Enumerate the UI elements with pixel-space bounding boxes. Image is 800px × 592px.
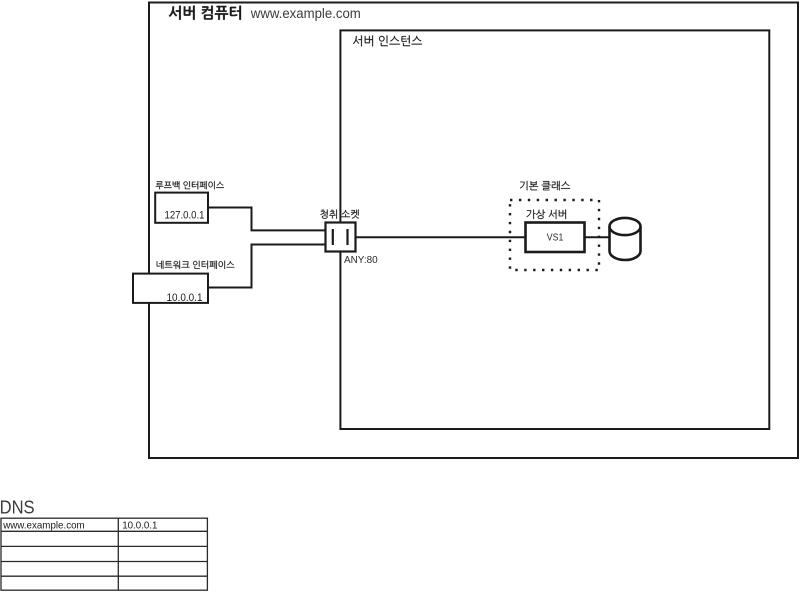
svg-text:VS1: VS1 xyxy=(547,233,564,244)
box: listening socket xyxy=(326,223,356,252)
DNS table grid xyxy=(1,518,207,590)
wire: network to socket xyxy=(208,245,330,288)
socket pin bar right xyxy=(346,229,348,245)
socket pin bar left xyxy=(332,229,334,245)
outer box: server computer xyxy=(149,3,798,459)
svg-text:10.0.0.1: 10.0.0.1 xyxy=(167,292,203,304)
label: Gasang Seobeo (Virtual Server) xyxy=(527,210,566,220)
wire: loopback to socket xyxy=(208,208,330,231)
label: Lupeubaek Inteopeiseu (Loopback Interface) xyxy=(156,181,224,189)
label: Seobeo Inseuteonseu (Server Instance) xyxy=(353,35,422,46)
dotted box: default class xyxy=(510,200,599,270)
svg-text:www.example.com: www.example.com xyxy=(2,521,84,532)
svg-text:ANY:80: ANY:80 xyxy=(344,255,378,266)
svg-text:127.0.0.1: 127.0.0.1 xyxy=(165,210,205,222)
svg-text:10.0.0.1: 10.0.0.1 xyxy=(122,521,157,532)
inner box: server instance xyxy=(340,30,769,429)
wire: socket to VS1 xyxy=(355,236,527,238)
box: virtual server VS1 xyxy=(526,223,585,253)
box: loopback interface xyxy=(155,193,208,223)
wire: VS1 to database cylinder xyxy=(584,236,611,238)
svg-text:DNS: DNS xyxy=(0,497,35,518)
label: Neteuwokeu Inteopeiseu (Network Interface) xyxy=(157,261,235,269)
label: Cheongchwi Soket (Listening Socket) xyxy=(320,210,359,219)
database cylinder xyxy=(610,227,641,261)
label: Gibon Keullaeseu (Default Class) xyxy=(520,181,570,191)
box: network interface xyxy=(133,274,208,303)
svg-text:www.example.com: www.example.com xyxy=(250,6,361,21)
label: Seobeo Keompyuteo (Server Computer) title xyxy=(169,6,241,20)
